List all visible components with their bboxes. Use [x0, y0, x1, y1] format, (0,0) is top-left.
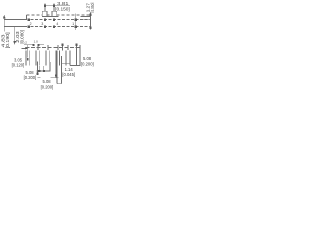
mid dim bar	[62, 63, 70, 65]
svg-text:5.08: 5.08	[43, 79, 52, 84]
svg-text:[0.150]: [0.150]	[55, 6, 69, 11]
pin square 2	[52, 11, 57, 16]
rotated labels left pair 2: 2.03 [0.080]	[15, 30, 24, 44]
svg-text:3: 3	[41, 22, 43, 26]
bracket bottom	[57, 83, 62, 85]
label2 arrow	[36, 73, 38, 75]
small dim arrows lower	[33, 44, 35, 46]
right small dimension vertical line	[89, 13, 91, 30]
dimension 3.81 extension line left	[44, 4, 46, 12]
row 2 centerline solid left	[4, 26, 27, 28]
left vertical dimension line	[3, 15, 5, 32]
diamonds row2	[28, 26, 30, 28]
top small dimension right line	[39, 44, 45, 46]
svg-text:[0.080]: [0.080]	[20, 30, 25, 44]
rotated label right: 1.27 [0.050]	[85, 2, 95, 12]
right vertical dim line with arrow	[76, 46, 78, 66]
hidden dashed line upper left	[27, 14, 90, 16]
bracket ext vertical 2	[61, 56, 63, 84]
svg-text:1.0: 1.0	[34, 39, 39, 43]
left dim arrow up	[3, 15, 6, 18]
svg-text:[0.200]: [0.200]	[24, 75, 37, 80]
svg-text:[0.045]: [0.045]	[62, 72, 75, 77]
svg-text:[0.050]: [0.050]	[90, 3, 94, 13]
label 5 leader vertical	[55, 60, 57, 78]
mid ext v	[69, 56, 71, 66]
row 1 centerline dashed	[31, 19, 90, 21]
bottom dim arrows	[38, 70, 40, 72]
bottom dim line	[37, 70, 51, 72]
second left dim arrow down	[13, 41, 16, 44]
row 1 centerline solid left	[4, 19, 27, 21]
vdim arrows	[75, 19, 77, 21]
pad 3	[45, 50, 47, 65]
bottom ext line a	[38, 66, 40, 71]
pad 5	[65, 50, 67, 65]
pad 1	[25, 50, 27, 65]
vertical dimension line rows gap	[75, 14, 77, 31]
bottom ext line b	[43, 66, 45, 71]
arrow blobs dim 3.81	[44, 5, 46, 7]
label 5 leader horizontal	[50, 77, 58, 79]
svg-text:[0.200]: [0.200]	[81, 61, 94, 66]
body top edge line	[43, 16, 59, 18]
svg-text:3.81: 3.81	[57, 1, 69, 6]
pad center cross ticks	[27, 45, 29, 50]
right mid dim arrow top	[75, 43, 77, 45]
leader line to label 1	[21, 47, 27, 49]
dimension 3.81 dimension line	[45, 5, 70, 7]
pad bottom edge right	[70, 65, 80, 67]
diamonds row1	[28, 19, 30, 21]
label 3 extension line	[79, 45, 81, 66]
svg-text:[0.120]: [0.120]	[12, 62, 25, 67]
svg-text:1: 1	[72, 22, 74, 26]
svg-text:2: 2	[30, 22, 32, 26]
footprint centerline	[25, 46, 80, 48]
leader arrow	[25, 47, 28, 49]
svg-text:[0.200]: [0.200]	[41, 84, 54, 89]
second left vertical dimension line	[14, 27, 16, 42]
right small dimension tick line	[80, 19, 90, 21]
right dim arrows	[89, 13, 91, 16]
dimension 3.81 extension line right	[53, 4, 55, 12]
pad 2	[35, 50, 37, 65]
top small dimension left line	[24, 44, 34, 46]
label 2 extension vertical	[36, 62, 38, 74]
pin square 1	[42, 11, 47, 16]
svg-text:[0.190]: [0.190]	[5, 32, 10, 48]
rotated labels left pair 1: 4.83 [0.190]	[1, 32, 11, 48]
pad 4	[55, 50, 57, 65]
row 2 centerline dashed	[31, 26, 90, 28]
svg-text:4: 4	[56, 22, 58, 26]
label5 arrow up	[55, 74, 57, 76]
text labels	[12, 1, 94, 89]
bottom ext line c	[49, 62, 51, 71]
bracket ext vertical long	[56, 50, 58, 83]
